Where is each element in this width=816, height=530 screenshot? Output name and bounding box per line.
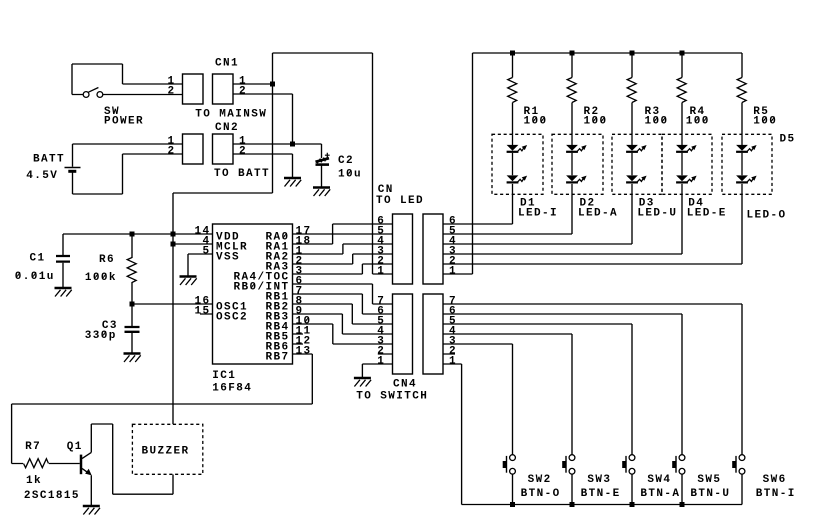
svg-text:LED-E: LED-E: [687, 207, 727, 219]
svg-text:15: 15: [195, 306, 211, 318]
svg-text:5: 5: [203, 246, 211, 258]
svg-text:100k: 100k: [85, 272, 117, 284]
svg-text:C1: C1: [30, 253, 46, 265]
svg-text:BTN-E: BTN-E: [581, 488, 621, 500]
svg-text:0.01u: 0.01u: [15, 271, 55, 283]
svg-text:2: 2: [168, 86, 176, 98]
svg-text:4.5V: 4.5V: [26, 170, 58, 182]
svg-text:SW6: SW6: [763, 474, 787, 486]
svg-text:TO BATT: TO BATT: [214, 168, 270, 180]
svg-text:10u: 10u: [338, 169, 362, 181]
svg-text:BTN-U: BTN-U: [690, 488, 730, 500]
svg-text:R6: R6: [99, 254, 115, 266]
svg-text:LED-A: LED-A: [578, 207, 618, 219]
svg-text:CN2: CN2: [215, 122, 239, 134]
svg-text:RB7: RB7: [266, 352, 290, 364]
svg-text:BTN-A: BTN-A: [640, 488, 680, 500]
svg-text:1: 1: [377, 266, 385, 278]
svg-text:C2: C2: [338, 155, 354, 167]
svg-text:1: 1: [377, 356, 385, 368]
svg-text:TO SWITCH: TO SWITCH: [356, 391, 428, 403]
svg-text:BTN-O: BTN-O: [521, 488, 561, 500]
svg-text:2: 2: [168, 146, 176, 158]
svg-text:1: 1: [449, 266, 457, 278]
svg-text:SW3: SW3: [587, 474, 611, 486]
svg-text:LED-I: LED-I: [518, 207, 558, 219]
svg-text:SW2: SW2: [528, 474, 552, 486]
svg-text:SW4: SW4: [647, 474, 671, 486]
svg-text:OSC2: OSC2: [216, 312, 248, 324]
svg-text:Q1: Q1: [67, 441, 83, 453]
svg-text:2: 2: [239, 86, 247, 98]
svg-text:330p: 330p: [85, 330, 117, 342]
svg-text:POWER: POWER: [104, 115, 144, 127]
svg-text:IC1: IC1: [212, 370, 236, 382]
svg-text:BUZZER: BUZZER: [142, 446, 190, 458]
svg-text:R7: R7: [25, 441, 41, 453]
svg-text:1: 1: [449, 356, 457, 368]
svg-text:TO LED: TO LED: [376, 195, 424, 207]
svg-text:SW5: SW5: [697, 474, 721, 486]
svg-text:2: 2: [239, 146, 247, 158]
svg-text:BTN-I: BTN-I: [756, 488, 796, 500]
svg-text:16F84: 16F84: [212, 383, 252, 395]
svg-text:LED-U: LED-U: [637, 207, 677, 219]
svg-text:CN4: CN4: [393, 378, 417, 390]
svg-text:D5: D5: [780, 133, 796, 145]
svg-text:TO MAINSW: TO MAINSW: [195, 109, 267, 121]
svg-text:BATT: BATT: [33, 153, 65, 165]
svg-text:LED-O: LED-O: [747, 209, 787, 221]
svg-text:2SC1815: 2SC1815: [24, 490, 80, 502]
svg-text:VSS: VSS: [216, 252, 240, 264]
svg-text:CN1: CN1: [215, 58, 239, 70]
svg-text:13: 13: [296, 346, 312, 358]
svg-text:1k: 1k: [26, 475, 42, 487]
